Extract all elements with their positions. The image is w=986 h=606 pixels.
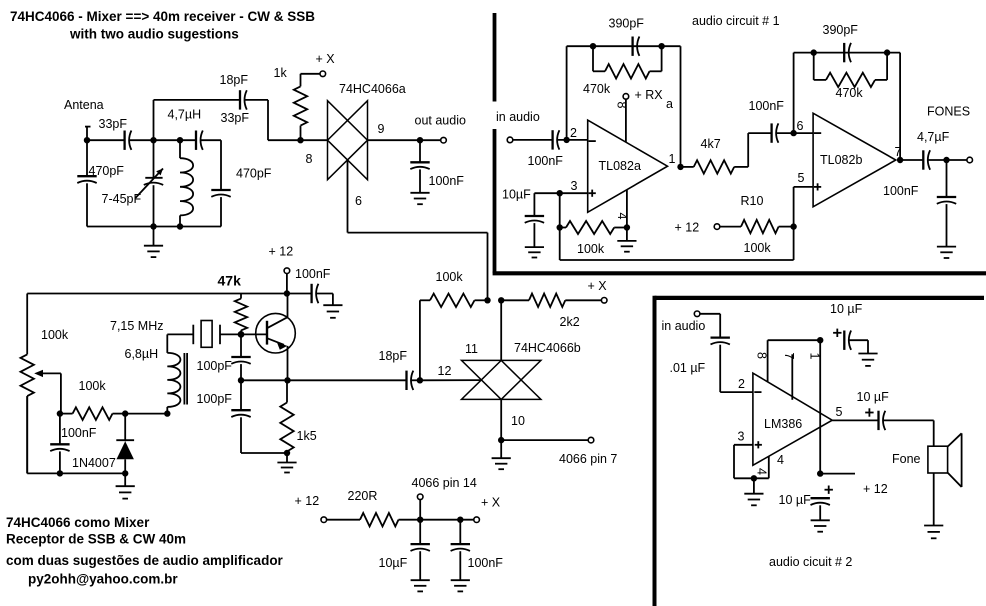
svg-text:.01 µF: .01 µF	[670, 361, 706, 375]
capacitor 470pF left	[77, 176, 96, 183]
node pin1 out	[677, 164, 683, 170]
svg-text:74HC4066b: 74HC4066b	[514, 341, 581, 355]
svg-text:74HC4066a: 74HC4066a	[339, 82, 406, 96]
node 18pF out	[417, 377, 423, 383]
wire pin2 node up	[566, 46, 568, 140]
wire pin4 stub	[626, 190, 628, 228]
capacitor 10uF bottom	[411, 520, 430, 580]
svg-text:LM386: LM386	[764, 417, 802, 431]
wire +12 feed LM386	[820, 473, 855, 475]
plus 10uF bypass	[825, 486, 833, 494]
capacitor 18pF coupling	[240, 90, 247, 109]
op-amp U2a TL082a	[588, 120, 668, 212]
svg-text:1N4007: 1N4007	[72, 456, 116, 470]
svg-text:470k: 470k	[583, 82, 611, 96]
terminal +X bottom	[474, 517, 480, 523]
svg-text:with two audio sugestions: with two audio sugestions	[69, 27, 239, 42]
wire oscillator ground stub	[124, 473, 126, 486]
border audio circuit 2 left	[653, 296, 657, 606]
potentiometer 100k	[21, 294, 34, 474]
wire pin10 to terminal	[501, 439, 588, 441]
node pin1-6	[817, 337, 823, 343]
node rail pin11	[498, 297, 504, 303]
plus pin3 LM386	[755, 441, 762, 448]
wire base	[241, 333, 267, 335]
svg-text:out audio: out audio	[415, 114, 466, 128]
wire pin7 out to 4,7uF	[900, 159, 923, 161]
node +12 rail	[284, 290, 290, 296]
ground 10uF bypass	[811, 520, 830, 531]
capacitor 10uF output	[879, 411, 886, 430]
wire crystal right to base node	[220, 333, 241, 335]
svg-text:+ X: + X	[316, 52, 336, 66]
node tank bottom 1	[150, 223, 156, 229]
antenna terminal stub	[85, 127, 91, 141]
wire pin5 out LM386	[832, 419, 878, 421]
svg-text:3: 3	[738, 430, 745, 444]
speaker Fone	[928, 433, 962, 487]
svg-text:py2ohh@yahoo.com.br: py2ohh@yahoo.com.br	[28, 572, 178, 587]
wire tank top junction to 33pF#2	[154, 139, 197, 141]
capacitor 100nF +12 decoupling	[312, 284, 319, 303]
wire antenna to C 33pF	[87, 139, 125, 141]
svg-text:100nF: 100nF	[528, 154, 564, 168]
wire in audio 2 to cap	[700, 314, 720, 338]
ground out audio	[410, 193, 429, 204]
node wiper junction	[57, 410, 63, 416]
svg-text:470pF: 470pF	[89, 164, 125, 178]
ground pin10	[492, 458, 511, 469]
resistor 470k A leads	[593, 46, 662, 71]
wire collector to +12	[287, 294, 289, 318]
node pin8 junction	[297, 137, 303, 143]
node 1k5 bottom	[284, 450, 290, 456]
svg-text:7: 7	[782, 353, 796, 360]
crystal 7,15MHz	[193, 321, 220, 348]
terminal out audio	[441, 137, 447, 143]
ground +12 decoupling	[323, 305, 342, 318]
svg-text:5: 5	[798, 171, 805, 185]
node lm386 ground	[751, 475, 757, 481]
ground 100nF bottom	[451, 580, 470, 591]
resistor 470k B leads	[814, 53, 887, 80]
node 100k A left	[557, 224, 563, 230]
svg-text:9: 9	[378, 122, 385, 136]
wire emitter ground stub	[286, 453, 288, 463]
terminal 4066 pin 14	[417, 494, 423, 500]
svg-text:100k: 100k	[436, 270, 464, 284]
svg-text:4: 4	[777, 453, 784, 467]
capacitor 4,7uF output	[923, 150, 930, 169]
minus pin2 A	[589, 140, 596, 142]
wire 4k7 up to 100nF	[748, 133, 771, 167]
wire pin14 terminal	[419, 500, 421, 520]
svg-text:com duas sugestões de audio am: com duas sugestões de audio amplificador	[6, 553, 284, 568]
svg-text:100nF: 100nF	[61, 426, 97, 440]
wire pin6 node up	[793, 53, 795, 134]
resistor 4k7	[681, 160, 749, 173]
svg-text:470pF: 470pF	[236, 167, 272, 181]
svg-text:Fone: Fone	[892, 452, 921, 466]
resistor 220R	[327, 513, 421, 526]
wire pin14 to +X node	[420, 519, 474, 521]
wire to coil bottom	[125, 413, 167, 415]
border audio circuit 2 top	[655, 296, 985, 300]
ground speaker	[924, 526, 943, 539]
node fb B right	[884, 49, 890, 55]
wire +RX to opamp pin8	[625, 99, 627, 142]
wire tank ground stub	[153, 227, 155, 246]
wire fb B to pin7	[899, 53, 901, 160]
wire 33pF#2 to 470pF#2 branch	[201, 140, 221, 226]
capacitor 100nF in audio	[553, 130, 560, 149]
svg-text:+ X: + X	[481, 496, 501, 510]
node emitter rail	[284, 377, 290, 383]
svg-text:4,7µF: 4,7µF	[917, 130, 950, 144]
svg-text:+ 12: + 12	[269, 245, 294, 259]
node diode top	[122, 410, 128, 416]
capacitor 33pF input	[125, 131, 132, 150]
svg-text:in audio: in audio	[496, 110, 540, 124]
node pin14	[417, 517, 423, 523]
terminal in audio 2	[694, 311, 700, 317]
svg-text:100k: 100k	[577, 242, 605, 256]
inductor 6,8uH primary	[167, 353, 180, 414]
capacitor 100nF out audio	[410, 162, 429, 169]
variable capacitor 7-45pF	[135, 140, 163, 226]
ground oscillator	[116, 486, 135, 498]
capacitor 100nF bottom	[451, 520, 470, 580]
terminal in audio 1	[507, 137, 513, 143]
svg-text:100k: 100k	[744, 241, 772, 255]
analog switch U1a 74HC4066a	[328, 101, 368, 180]
pot wiper arrow	[34, 370, 61, 414]
svg-text:100nF: 100nF	[429, 174, 465, 188]
ground pin4	[617, 241, 636, 252]
svg-text:3: 3	[571, 179, 578, 193]
capacitor 18pF osc	[407, 371, 414, 390]
wire left branch down (470pF)	[86, 140, 88, 226]
svg-text:8: 8	[615, 102, 629, 109]
svg-text:7-45pF: 7-45pF	[102, 192, 142, 206]
capacitor 10uF top	[844, 331, 851, 350]
pin 1 / pin 6 line LM386	[819, 340, 821, 473]
svg-text:11: 11	[465, 342, 478, 356]
ground 10uF top	[858, 354, 877, 366]
wire base node to 100pF stack	[240, 334, 242, 380]
wire fones node to 100nF	[946, 160, 948, 246]
wire 18pF to switch input node	[245, 100, 328, 140]
svg-text:18pF: 18pF	[220, 73, 249, 87]
wire crystal left	[167, 334, 193, 353]
plus pin5 B	[814, 183, 821, 190]
capacitor 100pF lower	[231, 410, 250, 417]
node fb A right	[658, 43, 664, 49]
wire emitter down	[287, 346, 289, 380]
wire 1k to +X terminal	[301, 73, 320, 75]
svg-text:10µF: 10µF	[502, 188, 531, 202]
plus pin3 A	[589, 190, 596, 197]
svg-text:100pF: 100pF	[197, 392, 233, 406]
op-amp U2b TL082b	[813, 113, 896, 207]
wire pin3 bracket to ground rail	[734, 445, 769, 479]
svg-text:2: 2	[570, 126, 577, 140]
svg-text:18pF: 18pF	[379, 349, 408, 363]
svg-text:TL082b: TL082b	[820, 153, 862, 167]
svg-text:33pF: 33pF	[99, 117, 128, 131]
node tank top left	[150, 137, 156, 143]
node pin5 R10	[790, 223, 796, 229]
svg-text:FONES: FONES	[927, 105, 970, 119]
node pin4	[624, 224, 630, 230]
resistor 100k mixer	[430, 294, 488, 307]
wire tank to 18pF cap	[154, 100, 241, 140]
svg-text:a: a	[666, 97, 673, 111]
svg-text:100pF: 100pF	[197, 359, 233, 373]
wire pin4 to ground	[626, 228, 628, 241]
capacitor 100nF interstage	[772, 123, 779, 142]
wire pin9 to out audio	[368, 139, 441, 141]
svg-text:5: 5	[836, 405, 843, 419]
svg-text:+ X: + X	[588, 279, 608, 293]
svg-text:+ 12: + 12	[295, 494, 320, 508]
svg-text:7,15 MHz: 7,15 MHz	[110, 319, 164, 333]
capacitor 100nF fones	[937, 197, 956, 204]
analog switch U1b 74HC4066b	[462, 360, 541, 399]
capacitor 390pF A	[633, 37, 640, 56]
wire tank bottom rail	[87, 226, 221, 228]
pin 8 stub LM386	[768, 340, 821, 382]
svg-text:1k5: 1k5	[297, 429, 317, 443]
wire oscillator output rail	[241, 379, 420, 381]
wire 4,7uF to fones	[928, 159, 967, 161]
terminal +RX	[623, 94, 629, 100]
wire bottom rail left	[27, 396, 125, 473]
border audio circuit 1 left	[493, 13, 497, 273]
node rail pin6	[484, 297, 490, 303]
wire pin12 control	[420, 379, 481, 381]
svg-text:100nF: 100nF	[468, 556, 504, 570]
ground 10uF bottom	[411, 580, 430, 591]
svg-text:4: 4	[615, 213, 629, 220]
node rail diode bottom	[122, 470, 128, 476]
terminal +12 bottom	[321, 517, 327, 523]
node fb B left	[811, 49, 817, 55]
svg-text:audio cicuit # 2: audio cicuit # 2	[769, 555, 852, 569]
border audio circuit 1 bottom	[493, 271, 986, 275]
minus pin2 LM386	[754, 391, 761, 393]
ground emitter	[277, 463, 296, 473]
svg-text:10µF: 10µF	[379, 556, 408, 570]
op-amp U3 LM386	[753, 373, 832, 465]
wire 10uF top to ground	[849, 340, 868, 353]
terminal +12 R10	[714, 224, 720, 230]
svg-text:100nF: 100nF	[295, 267, 331, 281]
wire out audio to 100nF	[419, 140, 421, 193]
svg-text:6,8µH: 6,8µH	[125, 347, 159, 361]
node pin3	[557, 190, 563, 196]
svg-text:100nF: 100nF	[883, 184, 919, 198]
resistor R10 100k	[720, 220, 794, 233]
terminal +X right	[601, 298, 607, 304]
terminal 4066 pin 7	[588, 437, 594, 443]
pin 4 stub LM386	[768, 456, 770, 478]
wire feedback top B	[794, 52, 901, 54]
svg-text:12: 12	[438, 364, 452, 378]
wire 33pF to tank top	[129, 139, 153, 141]
ground fones	[937, 247, 956, 258]
wire 100nF to pin6	[776, 132, 813, 134]
node coil bottom	[164, 410, 170, 416]
wire .01uF to pin2 LM386	[720, 345, 753, 392]
resistor 1k	[294, 74, 307, 140]
node pin10	[498, 437, 504, 443]
terminal +X top	[320, 71, 326, 77]
svg-text:+ 12: + 12	[675, 221, 700, 235]
capacitor 390pF B	[844, 43, 851, 62]
plus 10uF top	[833, 329, 841, 337]
minus pin6 B	[814, 132, 821, 134]
capacitor 470pF right	[211, 190, 230, 197]
node 100pF mid	[238, 377, 244, 383]
plus 10uF out	[865, 408, 873, 416]
ground 10uF A	[525, 247, 544, 257]
wire pin5	[794, 187, 814, 227]
svg-text:10: 10	[511, 414, 525, 428]
node antenna junction	[84, 137, 90, 143]
resistor 470k B	[814, 73, 887, 87]
svg-text:100k: 100k	[79, 379, 107, 393]
transformer core	[184, 353, 187, 405]
node 100nF bottom	[57, 470, 63, 476]
capacitor 100pF upper	[231, 357, 250, 364]
node pin2	[563, 137, 569, 143]
svg-text:10 µF: 10 µF	[779, 493, 812, 507]
svg-text:4066 pin 14: 4066 pin 14	[412, 476, 477, 490]
wire 100nF to pin2	[557, 139, 588, 141]
svg-text:100nF: 100nF	[749, 99, 785, 113]
svg-text:390pF: 390pF	[609, 17, 645, 31]
wire +12 terminal down	[286, 274, 288, 294]
wire fb A to pin1	[680, 46, 682, 167]
svg-text:1: 1	[669, 152, 676, 166]
diode 1N4007	[116, 414, 134, 474]
svg-text:1: 1	[808, 353, 822, 360]
resistor 100k feed	[60, 407, 125, 420]
svg-text:audio circuit # 1: audio circuit # 1	[692, 14, 780, 28]
wire pin3 node down	[559, 193, 561, 227]
svg-text:6: 6	[355, 194, 362, 208]
svg-text:Receptor de SSB & CW 40m: Receptor de SSB & CW 40m	[6, 532, 186, 547]
resistor 100k A	[560, 221, 627, 234]
svg-text:2: 2	[738, 377, 745, 391]
capacitor 100nF pot	[50, 414, 69, 474]
wire pin11	[500, 300, 502, 360]
svg-text:6: 6	[797, 119, 804, 133]
resistor 470k A	[593, 64, 662, 78]
inductor 4,7uH	[180, 140, 193, 226]
transistor Q1 NPN oscillator	[256, 313, 296, 353]
node fones	[943, 157, 949, 163]
terminal fones	[967, 157, 973, 163]
svg-text:+ 12: + 12	[863, 482, 888, 496]
wire speaker to ground	[933, 473, 935, 525]
node out audio	[417, 137, 423, 143]
wire feedback top A	[567, 45, 681, 47]
svg-text:74HC4066 - Mixer ==> 40m rece: 74HC4066 - Mixer ==> 40m receiver - CW &…	[10, 9, 315, 24]
svg-text:8: 8	[306, 152, 313, 166]
svg-text:100k: 100k	[41, 328, 69, 342]
svg-text:Antena: Antena	[64, 98, 104, 112]
svg-text:2k2: 2k2	[560, 315, 580, 329]
node pin7 out	[897, 157, 903, 163]
svg-text:4k7: 4k7	[701, 137, 721, 151]
wire pin3	[560, 192, 588, 194]
capacitor 10uF A	[525, 193, 560, 247]
node fb A left	[590, 43, 596, 49]
wire pin6 control to rail	[348, 160, 488, 300]
wire 100pF mid to lower cap	[241, 380, 287, 453]
svg-text:TL082a: TL082a	[599, 159, 641, 173]
ground tank	[144, 246, 163, 257]
node +X cap	[457, 517, 463, 523]
svg-text:4066 pin 7: 4066 pin 7	[559, 452, 617, 466]
resistor 1k5	[280, 380, 293, 453]
ground LM386	[744, 494, 763, 506]
svg-text:R10: R10	[741, 194, 764, 208]
resistor 47k	[235, 294, 247, 335]
wire 18pF node up to 100k rail	[420, 300, 430, 380]
wire in audio to 100nF	[513, 139, 553, 141]
wire LM386 ground stub	[753, 478, 755, 493]
svg-text:in audio: in audio	[662, 319, 706, 333]
node tank top coil	[177, 137, 183, 143]
svg-text:33pF: 33pF	[221, 111, 250, 125]
svg-text:390pF: 390pF	[823, 23, 859, 37]
node pin6	[790, 130, 796, 136]
wire 10uF out to speaker	[883, 420, 934, 446]
capacitor 10uF bypass	[811, 498, 830, 520]
svg-text:+ RX: + RX	[635, 88, 664, 102]
wire pin10	[500, 399, 502, 440]
svg-text:4: 4	[755, 468, 769, 475]
wire +12 to 100nF decoupling	[287, 294, 333, 306]
svg-text:220R: 220R	[348, 489, 378, 503]
capacitor .01uF	[711, 338, 730, 345]
pin 7 stub LM386	[791, 354, 793, 400]
node crystal-base junction	[238, 331, 245, 338]
svg-text:4,7µH: 4,7µH	[168, 108, 202, 122]
svg-text:74HC4066 como Mixer: 74HC4066 como Mixer	[6, 515, 150, 530]
svg-text:47k: 47k	[218, 273, 242, 289]
svg-text:8: 8	[755, 352, 769, 359]
node bypass +12	[817, 470, 823, 476]
node tank bottom 2	[177, 223, 183, 229]
capacitor 33pF tank right	[196, 131, 203, 150]
wire bias to pin5 net	[560, 227, 794, 260]
resistor 2k2	[501, 294, 601, 307]
terminal +12 mixer	[284, 268, 290, 274]
svg-text:10 µF: 10 µF	[830, 302, 863, 316]
wire +12 rail	[27, 293, 287, 295]
svg-text:1k: 1k	[274, 66, 288, 80]
svg-text:470k: 470k	[836, 86, 864, 100]
wire pin10 ground stub	[500, 440, 502, 458]
svg-text:10 µF: 10 µF	[857, 390, 890, 404]
